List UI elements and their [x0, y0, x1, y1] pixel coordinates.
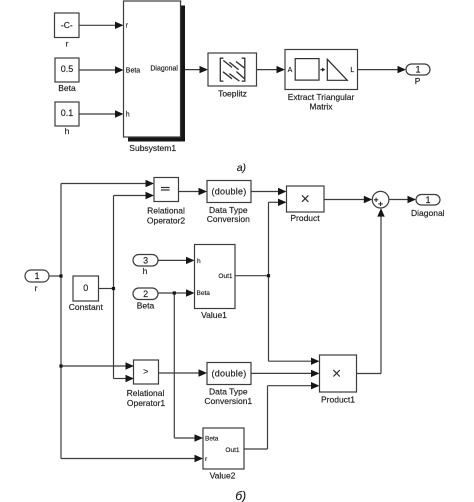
- svg-text:h: h: [143, 266, 148, 276]
- svg-text:Conversion1: Conversion1: [204, 396, 252, 406]
- svg-text:Conversion: Conversion: [207, 214, 250, 224]
- svg-text:Diagonal: Diagonal: [411, 208, 445, 218]
- svg-text:Relational: Relational: [147, 205, 185, 215]
- svg-text:Beta: Beta: [205, 435, 219, 442]
- svg-text:Toeplitz: Toeplitz: [218, 88, 247, 98]
- svg-text:Relational: Relational: [127, 388, 165, 398]
- svg-text:Diagonal: Diagonal: [150, 65, 178, 72]
- svg-text:r: r: [35, 283, 38, 293]
- svg-text:Product1: Product1: [321, 395, 355, 405]
- svg-text:Operator1: Operator1: [127, 398, 166, 408]
- svg-text:P: P: [415, 76, 421, 86]
- svg-text:Beta: Beta: [58, 83, 76, 93]
- svg-text:L: L: [350, 67, 354, 74]
- svg-text:0.1: 0.1: [61, 108, 74, 118]
- svg-text:1: 1: [34, 271, 39, 281]
- svg-text:A: A: [288, 67, 293, 74]
- svg-text:a): a): [237, 162, 246, 174]
- svg-text:Value1: Value1: [201, 310, 227, 320]
- svg-text:Matrix: Matrix: [309, 101, 333, 111]
- svg-text:Operator2: Operator2: [147, 216, 186, 226]
- svg-text:Beta: Beta: [137, 300, 155, 310]
- svg-text:Extract Triangular: Extract Triangular: [288, 92, 355, 102]
- svg-text:Constant: Constant: [69, 302, 104, 312]
- svg-text:Beta: Beta: [126, 67, 141, 74]
- svg-text:>: >: [143, 367, 148, 377]
- svg-text:Out1: Out1: [218, 273, 232, 280]
- svg-text:Beta: Beta: [197, 290, 211, 297]
- svg-text:h: h: [126, 112, 130, 119]
- svg-text:(double): (double): [211, 187, 246, 197]
- svg-text:0: 0: [83, 283, 88, 293]
- svg-text:1: 1: [425, 195, 430, 205]
- svg-text:Out1: Out1: [225, 447, 239, 454]
- svg-text:б): б): [235, 489, 246, 502]
- svg-text:0.5: 0.5: [61, 64, 74, 74]
- svg-text:r: r: [66, 39, 69, 49]
- svg-text:-C-: -C-: [61, 20, 73, 30]
- svg-text:Product: Product: [290, 213, 320, 223]
- svg-text:3: 3: [143, 255, 148, 265]
- svg-text:(double): (double): [211, 369, 246, 379]
- svg-text:Subsystem1: Subsystem1: [129, 143, 176, 153]
- svg-text:1: 1: [415, 64, 420, 74]
- svg-text:Data Type: Data Type: [209, 387, 248, 397]
- svg-text:h: h: [197, 258, 201, 265]
- svg-text:2: 2: [143, 289, 148, 299]
- svg-text:Value2: Value2: [210, 470, 236, 480]
- svg-text:h: h: [65, 126, 70, 136]
